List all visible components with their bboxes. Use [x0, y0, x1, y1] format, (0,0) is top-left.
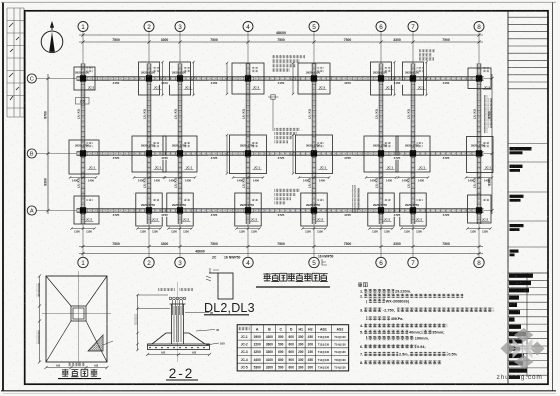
bottom total dimension line — [79, 252, 483, 255]
section 2-2 rebar dots — [149, 347, 204, 348]
footing JC row C axis 7 — [403, 62, 424, 95]
vertical ground beam axis 1 — [81, 64, 85, 225]
top span dimension line — [79, 40, 483, 43]
foundation detail left dims — [38, 274, 41, 363]
vertical ground beam axis 7 — [411, 64, 415, 225]
column C7 — [410, 75, 416, 81]
column A4 — [245, 207, 251, 213]
right dimension line — [490, 74, 493, 214]
vertical ground beam axis 2 — [147, 64, 151, 225]
axis bubble 3 top — [175, 22, 185, 32]
right title strip verticals — [507, 11, 509, 384]
annotation cluster above row C axes 7-8 — [419, 49, 435, 52]
axis bubble 8 bottom — [474, 257, 484, 267]
footing JC row C axis 3 — [170, 62, 191, 95]
axis bubble 4 top — [243, 22, 253, 32]
foundation detail centerlines — [78, 271, 80, 366]
boxed label under C1 footing — [76, 98, 90, 105]
column A5 — [311, 207, 317, 213]
north arrow — [41, 31, 63, 53]
beam span labels row C — [110, 81, 122, 85]
axis bubble 6 bottom — [376, 257, 386, 267]
section 2-2 right leaders — [185, 313, 219, 346]
svg-text:zhulong.com: zhulong.com — [497, 374, 543, 381]
mini vertical dims row B axes 4,5 — [226, 134, 294, 175]
axis bubble 7 bottom — [408, 257, 418, 267]
right strip bottom table rows — [508, 273, 548, 375]
footing JC row A axis 7 — [400, 193, 426, 226]
column A7 — [410, 207, 416, 213]
column A6 — [378, 207, 384, 213]
foundation detail hatched corner — [88, 335, 103, 351]
axis bubble 3 bottom — [175, 257, 185, 267]
left binding strip boxes — [7, 8, 24, 117]
node marker mid span — [271, 95, 275, 99]
notes header — [358, 282, 362, 286]
axis grid thin lines horizontal — [36, 79, 492, 211]
binding strip marks — [9, 23, 19, 100]
footing JC row B axis 6 — [364, 136, 398, 172]
annotation cluster row A mid — [274, 189, 300, 192]
column B6 — [378, 150, 384, 156]
axis bubble 2 top — [144, 22, 154, 32]
rotated tags between rows B-A axes 2,6 — [352, 185, 355, 213]
footing JC row B axis 3 — [163, 136, 197, 172]
axis bubble 7 top — [408, 22, 418, 32]
beam span labels row B — [110, 156, 122, 160]
mini vertical dims row C axes 4,5 — [226, 62, 294, 95]
section 2-2 left dims — [136, 294, 170, 351]
DL beam section marks — [206, 268, 219, 281]
foundation detail bottom dims — [44, 366, 108, 369]
vertical ground beam axis 3 — [178, 64, 182, 225]
right strip middle black bars — [510, 147, 532, 256]
column C8 — [476, 75, 482, 81]
footing JC row A axis 6 — [368, 193, 394, 226]
footing JC row B axis 5 — [296, 135, 333, 174]
footing JC row A axis 8 — [468, 195, 492, 223]
right strip extra bottom bar — [509, 376, 520, 379]
axis bubble 6 top — [376, 22, 386, 32]
outer border right — [552, 2, 554, 391]
footing JC row B axis 8 — [467, 137, 494, 173]
axis bubble 1 top — [78, 22, 88, 32]
footing sub-dimension under row B — [69, 176, 493, 178]
outer border bottom — [1, 390, 556, 392]
column B8 — [476, 150, 482, 156]
column C5 — [311, 75, 317, 81]
vertical ground beam axis 5 — [312, 64, 316, 225]
column A2 — [146, 207, 152, 213]
section 2-2 pedestal column — [170, 304, 186, 344]
bottom span dimension line — [79, 245, 483, 248]
footing JC row C axis 2 — [139, 62, 160, 95]
axis bubble A left — [27, 206, 36, 215]
right strip middle dividers — [508, 144, 548, 274]
faint outer line bottom — [3, 393, 556, 395]
axis bubble 5 bottom — [309, 257, 319, 267]
DL beam section — [209, 273, 233, 299]
column C1 — [80, 75, 86, 81]
section 2-2 centerline — [177, 282, 179, 362]
main title : foundation and ground beam plan — [256, 273, 330, 287]
column B7 — [410, 150, 416, 156]
vertical ground beam axis 8 — [477, 64, 481, 225]
column A8 — [476, 207, 482, 213]
column C3 — [177, 75, 183, 81]
axis bubble 5 top — [309, 22, 319, 32]
foundation detail pyramid diagonals — [46, 276, 107, 362]
footing JC row B axis 2 — [132, 136, 166, 172]
vertical ground beam axis 4 — [246, 64, 250, 225]
footing JC row C axis 5 — [298, 63, 330, 94]
axis bubble 4 bottom — [243, 257, 253, 267]
footing JC row C axis 6 — [371, 62, 392, 95]
foundation detail title — [58, 369, 101, 379]
ground beam row C — [77, 77, 484, 81]
footing JC row A axis 4 — [235, 193, 261, 226]
column C4 — [245, 75, 251, 81]
mini vertical dims row C axes 2,3,6,7 — [161, 61, 427, 96]
section 2-2 base slab — [148, 344, 210, 350]
outer border top — [1, 1, 556, 3]
annotation cluster right of axis 8 — [484, 95, 487, 133]
left dimension line — [46, 74, 49, 214]
column B2 — [146, 150, 152, 156]
beam span labels row A — [110, 213, 122, 217]
footing JC row C axis 8 — [468, 68, 491, 89]
footing JC row A axis 1 — [74, 196, 99, 224]
footing JC row A axis 5 — [301, 193, 327, 226]
top total dimension line 48600 — [79, 33, 483, 36]
footing JC row A axis 3 — [167, 193, 193, 226]
footing sub-dimension under row A — [70, 227, 491, 229]
annotation cluster row B mid — [274, 128, 300, 131]
vertical ground beam axis 6 — [379, 64, 383, 225]
watermark pinwheel logo — [500, 328, 544, 369]
section 2-2 rebar lines — [174, 306, 181, 342]
column A1 — [80, 207, 86, 213]
foundation detail outer rect — [46, 276, 107, 362]
column C6 — [378, 75, 384, 81]
column B5 — [311, 150, 317, 156]
section 2-2 bottom dims — [146, 353, 211, 356]
column B4 — [245, 150, 251, 156]
annotation cluster above row C mid (DL notes) — [272, 55, 305, 58]
footing JC row A axis 2 — [136, 193, 162, 226]
axis bubble C left — [27, 74, 36, 83]
footing JC row C axis 1 — [74, 67, 95, 90]
axis grid thin lines vertical — [83, 32, 479, 258]
outer border left thick — [2, 2, 4, 391]
column B1 — [80, 150, 86, 156]
axis bubble 1 bottom — [78, 257, 88, 267]
footing schedule table — [237, 325, 348, 371]
footing JC row B axis 4 — [230, 135, 267, 174]
footing JC row B axis 1 — [69, 140, 99, 174]
axis bubble 8 top — [474, 22, 484, 32]
column B3 — [177, 150, 183, 156]
section 2-2 footing slopes — [148, 333, 210, 344]
column C2 — [146, 75, 152, 81]
axis bubble 2 bottom — [144, 257, 154, 267]
foundation detail column squares — [71, 306, 86, 321]
right strip top rows — [508, 17, 548, 89]
section 2-2 top labels — [158, 288, 175, 291]
column side mini labels — [87, 67, 93, 69]
ground beam row A — [77, 209, 484, 213]
footing JC row C axis 4 — [232, 63, 264, 94]
axis bubble B left — [27, 149, 36, 158]
table header — [239, 327, 250, 331]
right strip bottom table bars — [509, 274, 533, 373]
ground beam row B — [77, 152, 484, 156]
footing JC row B axis 7 — [396, 136, 430, 172]
column A3 — [177, 207, 183, 213]
section 2-2 anchor bolts — [169, 297, 186, 315]
